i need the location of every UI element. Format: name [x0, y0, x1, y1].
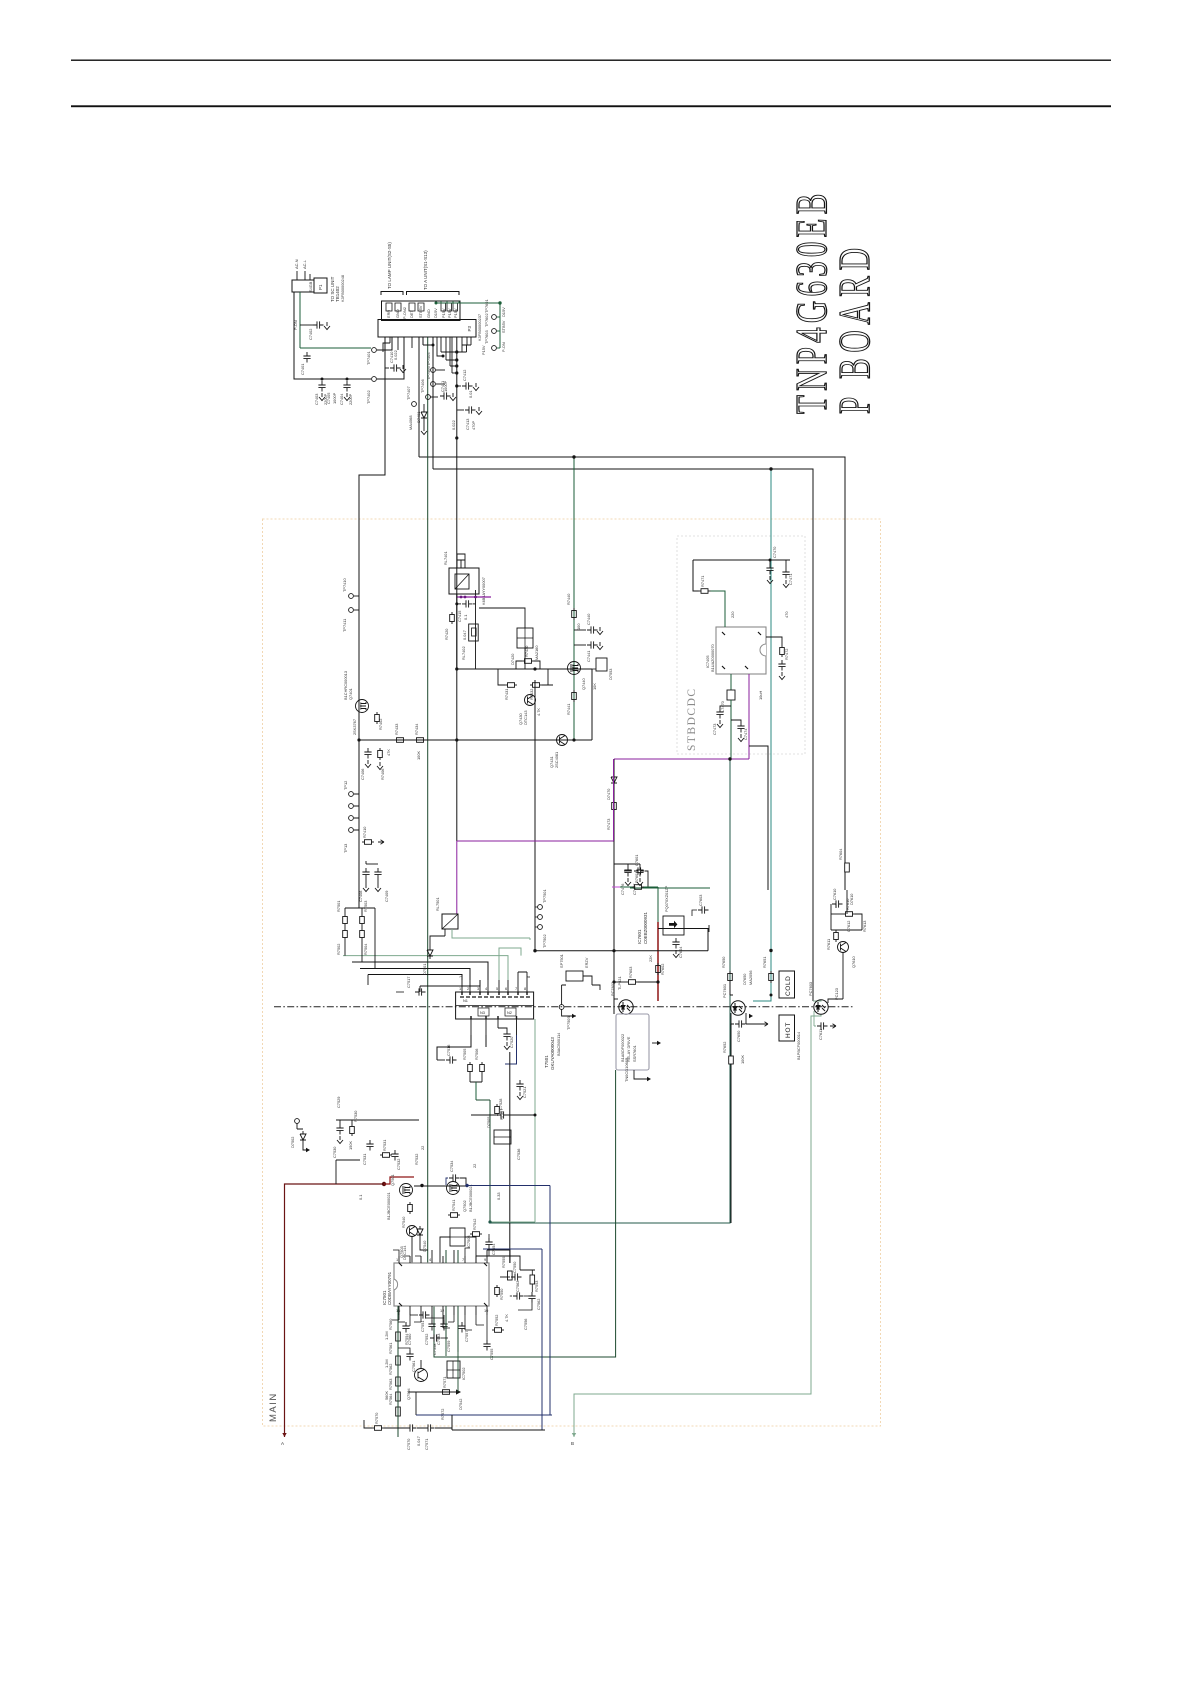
svg-text:T7501: T7501	[544, 1055, 549, 1068]
svg-text:47K: 47K	[386, 749, 391, 756]
resistor R7571	[440, 1377, 452, 1395]
capacitor C7601	[624, 855, 648, 887]
svg-text:C0EBZ0000931: C0EBZ0000931	[643, 911, 648, 944]
snubber parts left of transformer: capacitor C7516	[437, 1045, 457, 1064]
svg-text:TP7501: TP7501	[542, 889, 547, 903]
svg-text:TO A UNIT(S1-S13): TO A UNIT(S1-S13)	[423, 250, 428, 290]
svg-text:0.022: 0.022	[451, 420, 456, 430]
svg-text:R7410: R7410	[362, 826, 367, 838]
connector P3 upper pin row	[382, 301, 461, 321]
svg-text:TP7405: TP7405	[426, 366, 431, 380]
svg-text:RL7501: RL7501	[435, 897, 440, 911]
capacitor pair C7552 C7553	[424, 1315, 448, 1345]
wire: pin x518 x527 up join black	[518, 972, 527, 980]
svg-text:R7571: R7571	[442, 1377, 447, 1388]
wire: through regulator y928.5	[658, 928, 709, 930]
test pin circle y350	[372, 348, 377, 353]
svg-text:N3: N3	[480, 1010, 485, 1015]
fusible resistor R7604 on x847	[838, 848, 849, 872]
svg-text:C7650: C7650	[736, 1030, 741, 1042]
wire: green horizontal y348 to test pin	[300, 347, 371, 349]
junction dots purple bus	[460, 596, 463, 599]
photocoupler PC7602	[610, 982, 633, 1014]
svg-text:PC7603: PC7603	[808, 982, 813, 996]
gate resistor R7541	[448, 1200, 460, 1218]
resistor R7552 right below IC	[492, 1315, 504, 1333]
wire: coupler bottom loop with cap	[731, 1013, 762, 1024]
inrush box M	[435, 897, 458, 929]
svg-text:C7528: C7528	[498, 1099, 503, 1110]
wire: dark green from lower gray box x615.6 down, left to IC pin x434	[434, 1070, 616, 1357]
resistor R7507	[495, 1104, 504, 1120]
snubber box SP7501	[559, 954, 589, 981]
svg-text:C7406: C7406	[360, 769, 365, 780]
transistor Q7503	[399, 1226, 418, 1259]
HOT label box (rotated)	[779, 1015, 795, 1041]
svg-text:C7409: C7409	[384, 891, 389, 902]
wire: green segment x658	[657, 887, 659, 922]
connector P3 main body	[378, 320, 476, 338]
svg-text:IC7502: IC7502	[461, 1367, 466, 1380]
test pin circle 3	[484, 330, 500, 350]
svg-text:R7440: R7440	[566, 593, 571, 605]
connector P1 housing	[292, 280, 314, 292]
svg-text:GND: GND	[426, 309, 431, 318]
wire: long vertical from connector x427.7 down to IC7501	[427, 337, 429, 1263]
svg-text:C7555: C7555	[489, 1349, 494, 1360]
gray box B1 below photocoupler	[616, 1014, 649, 1082]
svg-text:C7557: C7557	[464, 1331, 469, 1342]
resistor R7542 above IC	[470, 1219, 482, 1237]
svg-text:10K: 10K	[592, 683, 597, 690]
svg-text:COLD: COLD	[785, 976, 792, 996]
wire: x614 drop from purple bus	[613, 759, 615, 1014]
primary routing nest line 4	[368, 975, 462, 981]
svg-text:STB5V: STB5V	[418, 305, 423, 318]
P3 upper row pin cells	[386, 303, 458, 311]
svg-text:R7541: R7541	[451, 1200, 456, 1211]
driver box IC7503	[450, 1228, 471, 1248]
svg-text:C7401: C7401	[300, 364, 305, 375]
svg-text:C7470: C7470	[772, 546, 777, 558]
svg-text:R7430: R7430	[524, 645, 529, 657]
small arrow gnd right	[749, 1014, 753, 1018]
svg-text:RL7401: RL7401	[443, 551, 448, 565]
bottom pin joint wires IC7501	[421, 1315, 487, 1340]
wire: red jog to mosfet drain	[384, 1177, 414, 1184]
resistor R7550	[495, 1285, 504, 1300]
mosfet Q7440 on green	[568, 662, 587, 691]
svg-text:C7411: C7411	[440, 381, 445, 392]
primary routing nest line 2	[352, 962, 488, 980]
wire: green vertical x574 from y457	[573, 457, 575, 740]
svg-text:R7613: R7613	[862, 921, 867, 932]
junction purple/teal	[728, 757, 731, 760]
wire: drain bus y1186	[414, 1185, 467, 1187]
svg-text:C7604: C7604	[678, 946, 683, 958]
capacitor C7561	[398, 1348, 416, 1372]
mosfet Q7401	[343, 671, 369, 712]
svg-text:R7532: R7532	[414, 1154, 419, 1165]
svg-text:C7404: C7404	[339, 393, 344, 405]
svg-text:0.047: 0.047	[416, 1436, 421, 1446]
capacitor C7406	[360, 748, 372, 780]
svg-text:R7433: R7433	[394, 724, 399, 735]
svg-text:ERR: ERR	[386, 310, 391, 318]
teal resistor R7651	[762, 957, 773, 983]
svg-text:MA2056: MA2056	[748, 971, 753, 986]
svg-text:R7502: R7502	[336, 944, 341, 955]
svg-text:D15V: D15V	[433, 308, 438, 318]
svg-text:TP7603: TP7603	[484, 330, 489, 344]
svg-text:TN0CG1068B: TN0CG1068B	[624, 1057, 629, 1082]
svg-text:C7561: C7561	[411, 1361, 416, 1372]
svg-text:TP7402: TP7402	[366, 390, 371, 404]
wire: cluster frame	[831, 890, 862, 930]
COLD label box (rotated)	[779, 971, 795, 998]
relay RL7402 box	[461, 624, 478, 660]
svg-text:R7561: R7561	[388, 1343, 393, 1354]
svg-text:P15V: P15V	[453, 308, 458, 318]
extra pin stub wires below P3	[423, 337, 462, 373]
svg-text:TLP621: TLP621	[617, 976, 622, 990]
svg-text:B1PBCF000014: B1PBCF000014	[796, 1031, 801, 1060]
capacitor C7650	[735, 1020, 768, 1042]
capacitor C7476 pair	[614, 864, 644, 895]
svg-text:C7562: C7562	[536, 1299, 541, 1310]
diode D7540	[417, 1226, 427, 1252]
svg-text:TP7410: TP7410	[342, 578, 347, 592]
relay RL7401 inner box	[455, 574, 469, 589]
wire: x728 down from coupler	[730, 1024, 732, 1223]
wire: links above IC	[412, 1237, 476, 1264]
svg-text:AC-N: AC-N	[294, 259, 299, 269]
left rail test pin TP7410	[342, 578, 359, 599]
green vertical drop continues to mosfet area	[476, 1100, 490, 1222]
svg-text:R7570: R7570	[374, 1412, 379, 1424]
arrow stub below dash	[562, 1010, 576, 1031]
svg-text:D7420: D7420	[510, 653, 515, 665]
junction teal	[770, 994, 773, 997]
svg-text:R7471: R7471	[700, 576, 705, 587]
svg-text:1000P: 1000P	[332, 392, 337, 404]
svg-text:N2: N2	[507, 1010, 512, 1015]
capacitor C7470	[766, 546, 777, 584]
value annotation texts (mid section)	[352, 611, 789, 760]
svg-text:B1JBCE000021: B1JBCE000021	[386, 1192, 391, 1220]
svg-text:R7506: R7506	[474, 1049, 479, 1060]
svg-text:C7529: C7529	[336, 1097, 341, 1108]
transistor Q7431 on y740	[549, 735, 568, 769]
transformer bottom pin ticks	[471, 1016, 517, 1019]
junction x771 y950	[769, 949, 772, 952]
svg-text:C7471: C7471	[788, 574, 793, 585]
wire: x452 riser	[451, 1415, 453, 1430]
junction sage	[488, 1220, 491, 1223]
arrow below PC7602	[634, 1076, 651, 1081]
svg-text:C7534: C7534	[449, 1160, 454, 1172]
svg-text:C7413: C7413	[465, 419, 470, 430]
svg-text:8: 8	[524, 986, 526, 991]
svg-text:B3ACB00114: B3ACB00114	[556, 1032, 561, 1056]
wire: relay top tie	[457, 554, 465, 568]
pale main-area dashed outline box	[263, 519, 881, 1426]
resistor R7611	[826, 930, 838, 950]
resistor R7602 on red	[656, 963, 665, 975]
resistor R7420	[444, 612, 454, 640]
extra nest wire 5	[420, 980, 480, 992]
connector P1 body	[314, 278, 327, 293]
junction dots on x456.8	[455, 350, 458, 353]
svg-text:C0DBAYY00791: C0DBAYY00791	[387, 1271, 392, 1305]
svg-text:R7602: R7602	[660, 964, 665, 975]
svg-text:C7441: C7441	[586, 651, 591, 662]
transformer body	[456, 992, 534, 1019]
svg-text:R7604: R7604	[838, 848, 843, 860]
transistor Q7430	[518, 695, 536, 726]
mosfet Q7501	[386, 1174, 413, 1220]
wire: y1115 tie	[471, 1114, 535, 1116]
svg-text:6: 6	[505, 986, 507, 991]
wire: y1160 stub	[336, 1160, 360, 1184]
zener diode D7401	[416, 404, 427, 435]
wire: second vertical x475.5	[475, 590, 477, 669]
resistor R7434 on y740	[414, 723, 426, 743]
svg-text:Q7610: Q7610	[851, 955, 856, 968]
wire: horizontal y740	[359, 739, 592, 741]
svg-text:Q7503: Q7503	[399, 1246, 404, 1258]
wire: pins join stub y345	[462, 345, 471, 352]
svg-text:C7570: C7570	[406, 1438, 411, 1450]
P3 bottom short pin leads	[390, 337, 471, 366]
wire: bus vertical from connector pin x419	[418, 337, 420, 457]
wire: arrow stub y1392	[408, 1389, 461, 1394]
capacitor C7520	[498, 1028, 514, 1050]
capacitor C7441	[574, 641, 603, 662]
wire: green IC pins down x446 x458	[446, 1306, 458, 1352]
svg-text:100K: 100K	[740, 1055, 745, 1064]
photocoupler PC7603	[808, 982, 828, 1014]
wire: black from P1 housing down left	[294, 292, 371, 379]
svg-text:TP7601: TP7601	[484, 299, 489, 313]
svg-text:R7553: R7553	[534, 1281, 539, 1292]
svg-text:C7552: C7552	[424, 1334, 429, 1345]
capacitor C7471	[782, 560, 793, 588]
svg-text:B1CHRC000013: B1CHRC000013	[343, 671, 348, 700]
test pin TP7405	[426, 366, 445, 386]
wire: black horizontal y1430	[452, 1429, 545, 1431]
junction green bus top	[498, 301, 501, 304]
capacitor C7557 under IC	[458, 1322, 469, 1342]
wire: cluster leads	[562, 976, 600, 1005]
svg-text:R7603: R7603	[628, 967, 633, 978]
svg-text:C7440: C7440	[586, 613, 591, 625]
cap C7517 under nest	[396, 977, 426, 996]
svg-text:STBDCDC: STBDCDC	[686, 687, 698, 751]
wire: long vertical x456.8 connector to purple corner	[456, 337, 458, 841]
svg-text:C7415: C7415	[457, 611, 462, 622]
svg-text:P-ON: P-ON	[501, 342, 506, 352]
svg-text:0.047: 0.047	[462, 630, 467, 640]
svg-text:R7550: R7550	[499, 1288, 504, 1300]
resistor R7555 on x509.8	[501, 1257, 512, 1280]
svg-text:D7542: D7542	[458, 1399, 463, 1410]
wire: pin lead jog 2	[397, 343, 399, 350]
junction drain bus	[420, 1184, 423, 1187]
capacitor C7563 off x509.8	[510, 1281, 530, 1300]
left rail pin column TP7412-7415	[343, 781, 359, 853]
side resistor R7565	[398, 1322, 412, 1345]
regulator box IC7601	[663, 916, 684, 935]
svg-text:P15V: P15V	[447, 308, 452, 318]
svg-text:22K: 22K	[648, 955, 653, 962]
svg-text:4.7K: 4.7K	[504, 1314, 509, 1322]
svg-text:TP7407: TP7407	[406, 386, 411, 400]
resistor R7503	[360, 901, 368, 926]
capacitor C7401	[300, 352, 311, 375]
svg-text:2200P: 2200P	[323, 393, 328, 405]
photocoupler PC7601	[722, 984, 745, 1015]
svg-text:C7408: C7408	[358, 891, 363, 902]
capacitor C7532	[391, 1150, 401, 1170]
svg-text:1: 1	[396, 1257, 398, 1262]
crystal cap pair above IC	[485, 1234, 496, 1256]
wire: vertical x592	[591, 669, 593, 740]
svg-text:AC-L: AC-L	[302, 259, 307, 269]
capacitor C7413 horizontal	[457, 406, 482, 430]
svg-text:R7563: R7563	[388, 1379, 393, 1390]
svg-text:470P: 470P	[471, 421, 476, 430]
cap C7521 cluster below transformer	[516, 1080, 527, 1100]
capacitor C7410 horizontal	[385, 351, 406, 373]
svg-text:TP7401: TP7401	[366, 351, 371, 365]
left low cluster: pin + diode	[290, 1119, 310, 1153]
wire: under-IC green verticals extend	[446, 1340, 458, 1392]
transformer bottom pin leads	[471, 1019, 517, 1035]
svg-text:P-ON2: P-ON2	[402, 307, 407, 319]
resistor R7501	[336, 901, 347, 926]
svg-text:4.7K: 4.7K	[536, 708, 541, 716]
svg-text:R7651: R7651	[762, 957, 767, 968]
svg-text:TP7406: TP7406	[420, 379, 425, 393]
resistor R7406	[377, 748, 385, 780]
svg-text:B1UAZ0000070: B1UAZ0000070	[710, 643, 715, 672]
svg-text:2: 2	[467, 986, 469, 991]
relay RL7401 outer box	[449, 568, 479, 594]
svg-text:R7572: R7572	[440, 1409, 445, 1420]
svg-text:R7503: R7503	[363, 901, 368, 912]
svg-text:TP7404: TP7404	[426, 352, 431, 366]
svg-text:R7531: R7531	[382, 1140, 387, 1151]
capacitor C7550 right of IC	[500, 1261, 522, 1281]
value annotation texts (connector area)	[308, 281, 506, 430]
svg-text:GND: GND	[395, 309, 400, 318]
gate resistors R7540	[401, 1202, 412, 1228]
wire: box M bottom sage link	[452, 929, 530, 940]
capacitor C7408 pair	[358, 861, 389, 902]
junction x574 y457	[572, 455, 575, 458]
test pin TP7406	[420, 379, 438, 399]
svg-text:R7504: R7504	[363, 943, 368, 955]
svg-text:0.01: 0.01	[468, 390, 473, 398]
purple feed from relay area: vertical from y841	[456, 841, 458, 914]
resistor R7570	[372, 1412, 384, 1431]
cluster L frame wire	[345, 908, 375, 920]
svg-text:R7472: R7472	[784, 649, 789, 660]
svg-text:B1JBCE000021: B1JBCE000021	[468, 1184, 473, 1212]
svg-text:PC7601: PC7601	[722, 984, 727, 998]
svg-text:MAIN: MAIN	[268, 1392, 279, 1422]
extra IC7501 top pin wires	[393, 1248, 470, 1256]
shunt box IC7502	[447, 1361, 466, 1380]
wire: bus vertical from connector pin x433	[432, 337, 434, 469]
circled junction on dash line	[559, 1005, 564, 1010]
junction x771 y469	[769, 467, 772, 470]
junction maroon y1184	[382, 1182, 386, 1186]
resistor R7603	[614, 967, 658, 985]
node B arrow bottom	[571, 1433, 576, 1446]
svg-text:R7434: R7434	[414, 723, 419, 735]
svg-text:2SK3767: 2SK3767	[352, 719, 357, 735]
wire: navy y1186 output	[467, 1185, 550, 1187]
wire: from pin y379 up into connector	[377, 337, 404, 379]
capacitor C7558 under IC	[430, 1334, 448, 1355]
svg-text:0.1: 0.1	[463, 615, 468, 620]
wire: cluster bus y1120	[336, 1120, 419, 1124]
STBDCDC dashed outline box	[677, 536, 805, 754]
resistor R7530	[350, 1110, 358, 1136]
svg-text:TP7602: TP7602	[484, 313, 489, 327]
svg-text:HOT: HOT	[785, 1022, 792, 1038]
svg-text:R7652: R7652	[722, 1042, 727, 1053]
wire: magenta stub y887	[612, 886, 620, 888]
primary routing nest line 3	[360, 969, 470, 981]
svg-text:MA4068: MA4068	[408, 416, 413, 431]
resistor R7610	[831, 898, 855, 917]
svg-text:PC7602: PC7602	[610, 982, 615, 996]
wire: stub down to bus x456.8	[441, 352, 467, 366]
svg-text:C7563: C7563	[515, 1281, 520, 1292]
svg-text:C7611: C7611	[818, 1029, 823, 1040]
resistor R7601 on green y887	[620, 872, 658, 890]
svg-text:D7470: D7470	[606, 788, 611, 800]
svg-text:D7502: D7502	[290, 1137, 295, 1148]
svg-text:0.1: 0.1	[358, 1195, 363, 1200]
wire: horizontal y669	[457, 668, 592, 670]
svg-text:C7603: C7603	[698, 895, 703, 906]
junction dots on left wires	[321, 378, 324, 381]
svg-text:R7552: R7552	[494, 1315, 499, 1326]
wire: green pins into top	[446, 1250, 458, 1263]
svg-text:P BOARD: P BOARD	[831, 242, 880, 414]
resistor R7472	[780, 645, 789, 660]
svg-text:R7610: R7610	[845, 898, 850, 910]
wire: pin x499 up to green bus	[499, 948, 521, 980]
wire: navy secondary x516.5	[505, 1035, 517, 1064]
wire: bottom routing y1047	[437, 1035, 486, 1060]
diode block D7420	[479, 608, 539, 669]
svg-text:0.33: 0.33	[496, 1192, 501, 1200]
wire: purple bus y841	[457, 759, 614, 841]
capacitor C7403 hanging	[314, 381, 328, 405]
hot/cold isolation dash-dot line	[274, 1006, 853, 1008]
capacitor C7603 right of regulator	[692, 895, 709, 916]
resistor R7431	[504, 683, 517, 700]
wire: connector pin x385 L-shape to x359 long vertical	[359, 337, 385, 908]
svg-text:220: 220	[730, 611, 735, 618]
svg-text:2200P: 2200P	[348, 393, 353, 405]
svg-text:C7521: C7521	[522, 1087, 527, 1098]
